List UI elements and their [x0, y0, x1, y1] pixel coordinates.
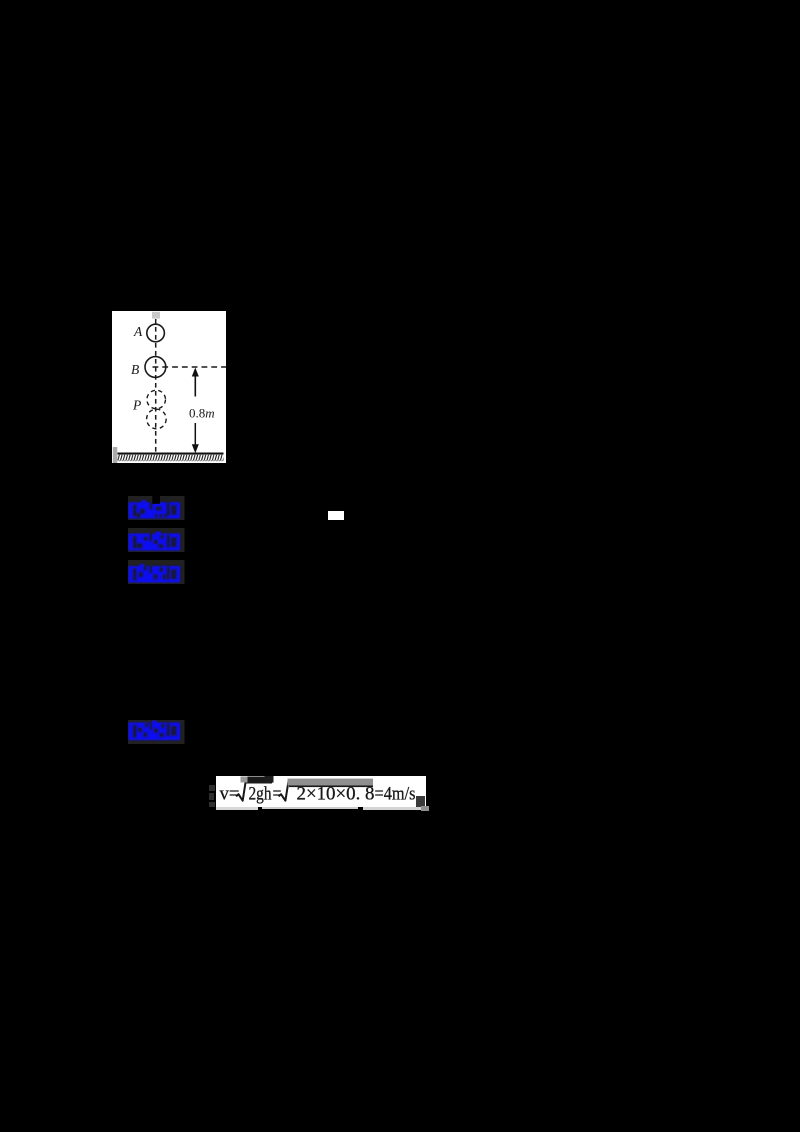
svg-text:B: B [131, 362, 139, 377]
svg-text:=4m/s: =4m/s [374, 784, 415, 805]
svg-text:P: P [132, 398, 141, 413]
svg-text:0.8m: 0.8m [189, 406, 215, 421]
svg-text:A: A [133, 324, 143, 339]
svg-text:2gh: 2gh [248, 784, 271, 805]
svg-text:v=: v= [219, 784, 239, 805]
